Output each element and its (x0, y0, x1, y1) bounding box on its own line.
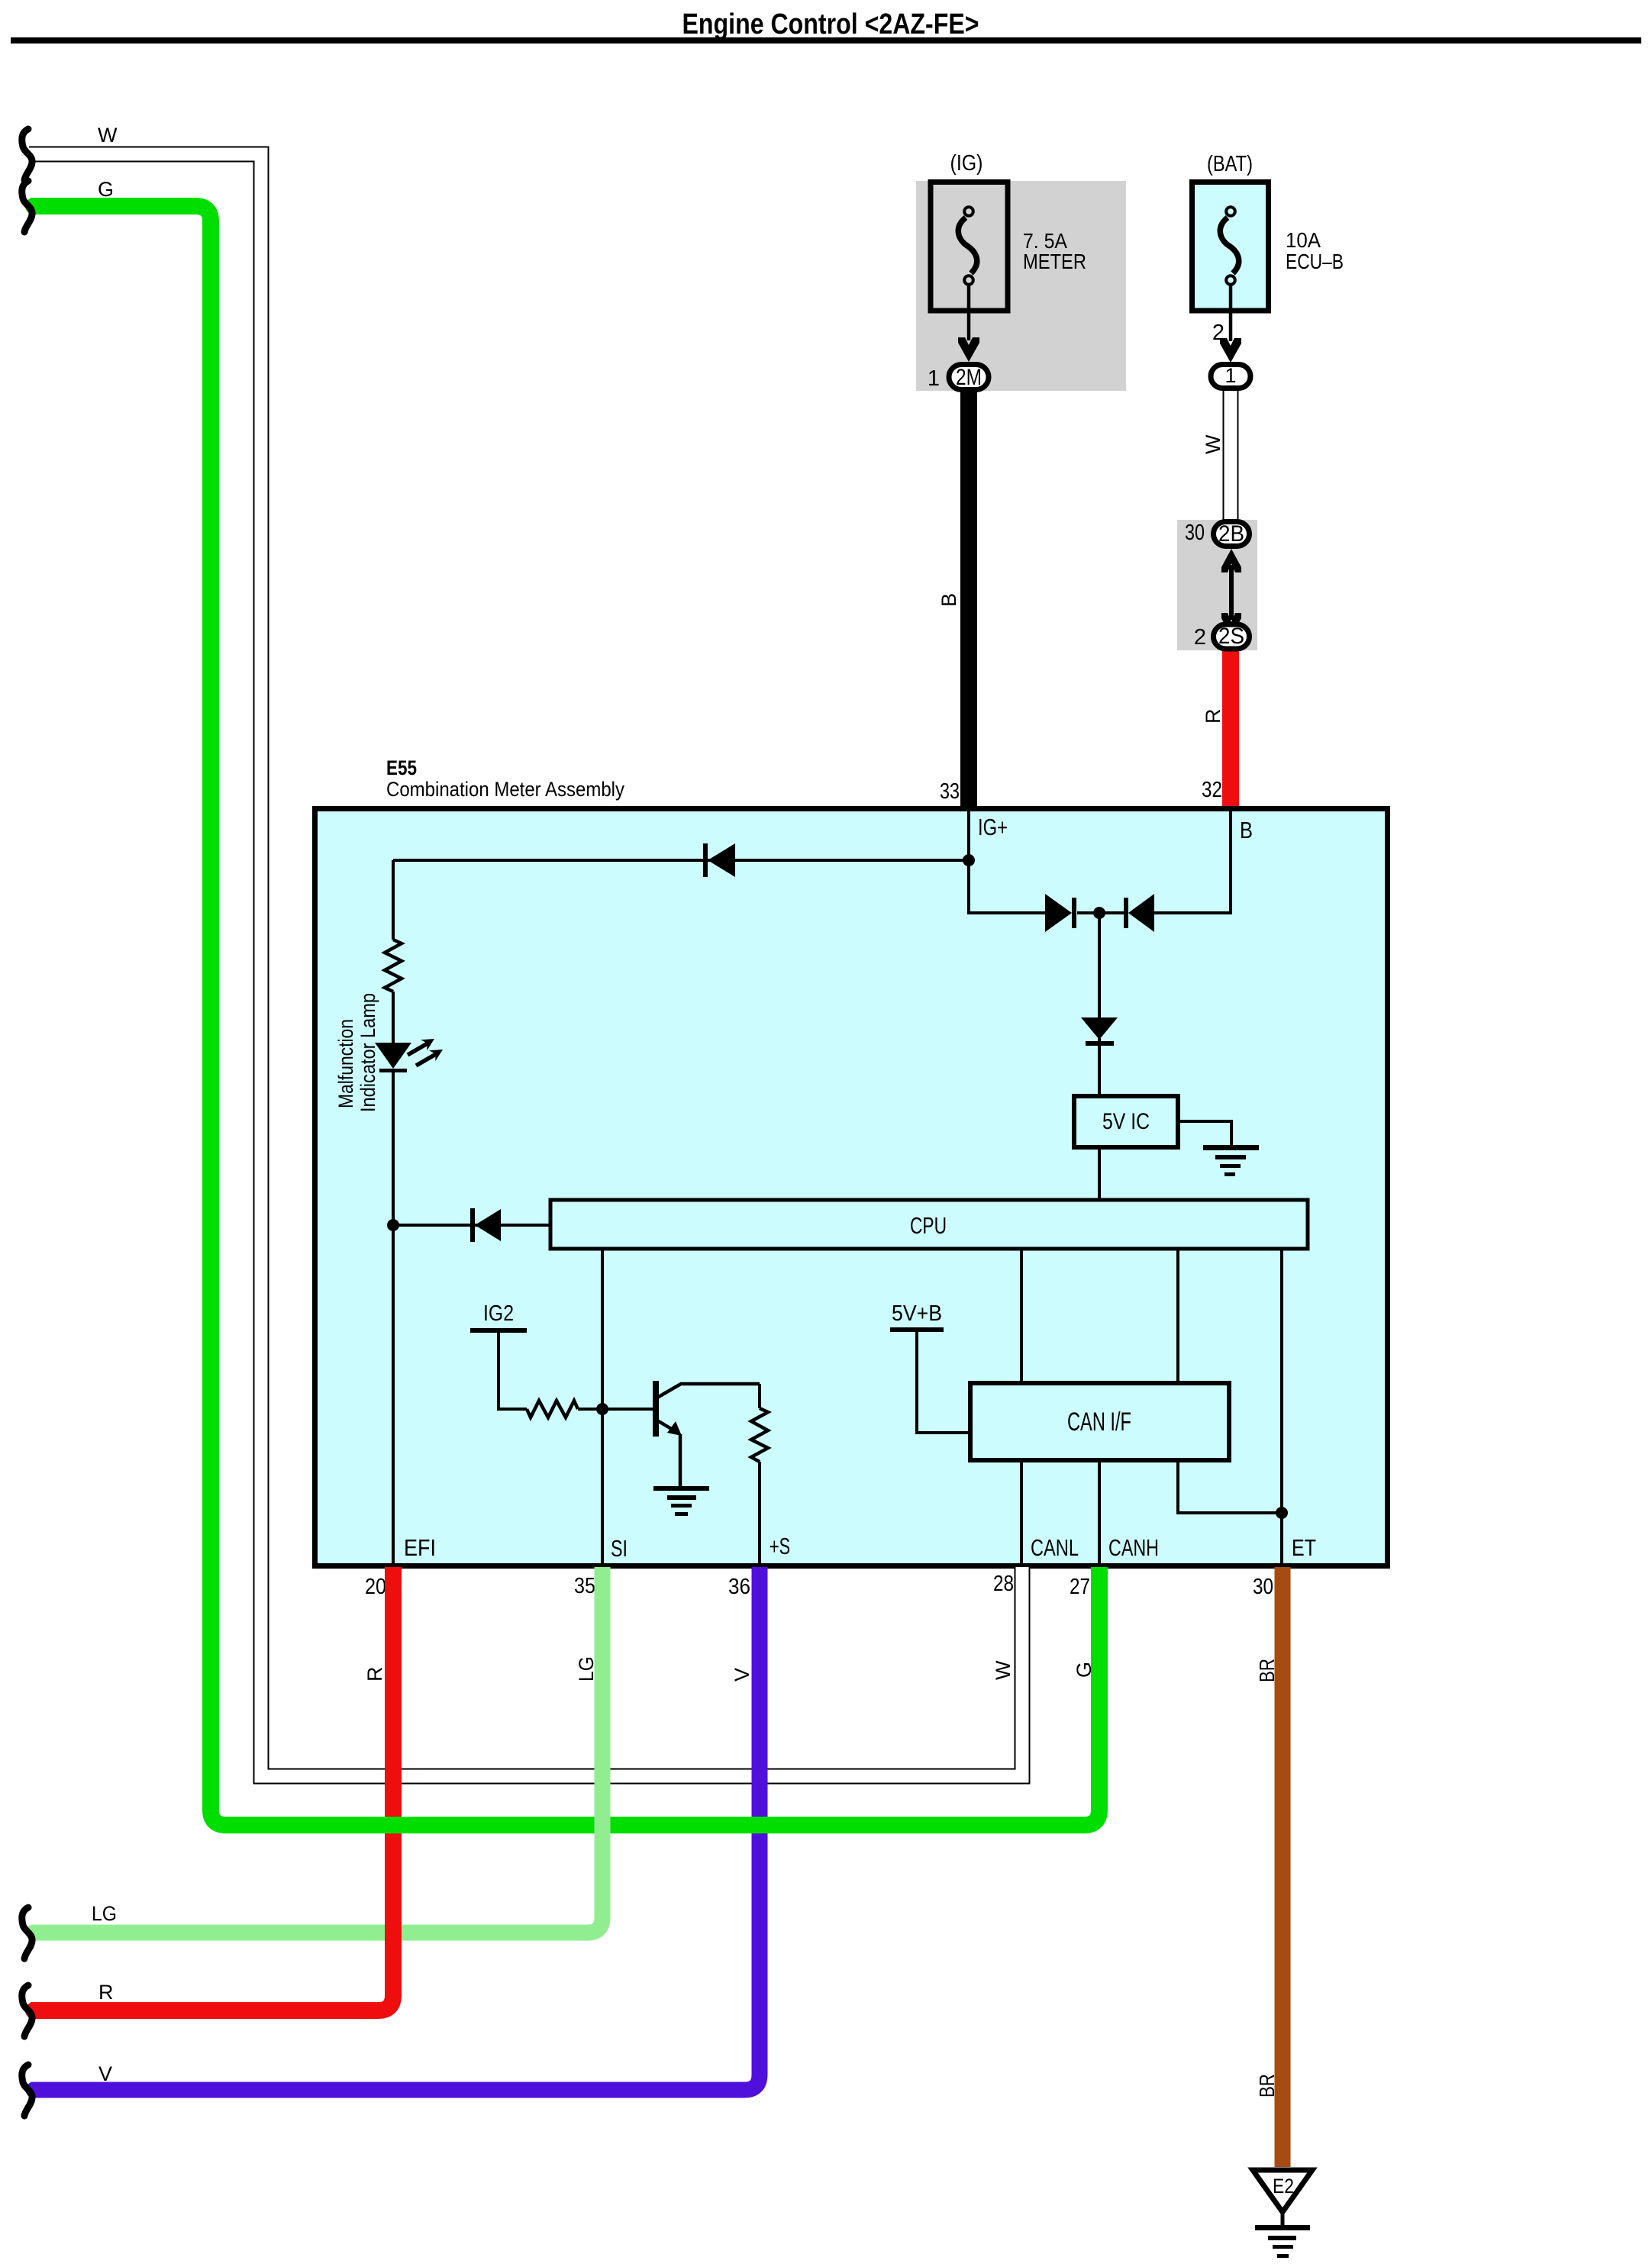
svg-text:2M: 2M (956, 365, 982, 390)
svg-text:EFI: EFI (404, 1534, 436, 1561)
svg-text:R: R (1202, 709, 1224, 724)
wire from fuse IG to connector 2M with arrow (958, 285, 979, 362)
svg-text:CANH: CANH (1108, 1534, 1159, 1561)
svg-text:36: 36 (728, 1575, 750, 1599)
pin 33 label (940, 779, 960, 804)
page break squiggle (W) (22, 129, 32, 180)
resistor R1 (MIL) (385, 940, 402, 992)
wire label V (pin 36) (731, 1668, 753, 1682)
wire V left end cap (26, 2082, 42, 2098)
wire resistor to LED (392, 992, 395, 1043)
wire R left end cap (25, 2002, 42, 2019)
label (BAT) (1207, 152, 1253, 176)
E55 Combination Meter Assembly box (315, 809, 1388, 1566)
terminal label EFI (404, 1534, 436, 1561)
pin 30 label of 2B (1185, 521, 1205, 545)
node IG+ vertical wire (969, 809, 1049, 913)
connector 2B (1214, 521, 1250, 547)
wire CAN I/F to ET junction (1178, 1460, 1282, 1513)
power node 5V+B (890, 1301, 970, 1433)
wire label R (left) (98, 1981, 114, 2004)
wire LG from page break to SI pin 35 (31, 1567, 602, 1933)
resistor R2 (IG2 to base) (527, 1401, 578, 1417)
pin 32 label (1202, 778, 1222, 802)
node B vertical wire (1150, 809, 1253, 913)
wire 5V IC to ground (1178, 1121, 1231, 1146)
pin 30 label (1253, 1575, 1273, 1599)
svg-text:2: 2 (1194, 625, 1206, 650)
svg-text:V: V (731, 1668, 753, 1682)
connector 1 (BAT) (1211, 364, 1250, 389)
title: Engine Control <2AZ-FE> (682, 8, 979, 40)
svg-text:Indicator Lamp: Indicator Lamp (357, 993, 379, 1112)
wire label G (top) (98, 178, 114, 201)
wire MIL branch vertical (EFI line) (392, 860, 395, 940)
wire from fuse BAT to connector 1 with arrow (1220, 285, 1241, 363)
svg-text:W: W (98, 124, 118, 147)
ground (transistor emitter) (653, 1486, 709, 1516)
page break squiggle (V) (22, 2065, 32, 2116)
svg-text:LG: LG (575, 1656, 598, 1682)
ground (5V IC) (1203, 1145, 1259, 1176)
svg-text:(IG): (IG) (950, 151, 983, 176)
terminal label SI (611, 1535, 628, 1562)
wire V from page break to +S pin 36 (31, 1567, 760, 2090)
wire LG left end cap (26, 1925, 42, 1941)
wire 5V IC to CPU (1098, 1147, 1101, 1200)
svg-text:LG: LG (92, 1902, 117, 1925)
pin 1 label of 2M (928, 366, 940, 391)
svg-text:30: 30 (1253, 1575, 1273, 1599)
diode D2 (B side of OR) (1124, 894, 1154, 932)
ground E2 (1253, 2170, 1312, 2258)
connector 2M (949, 365, 989, 391)
wire label R (1202, 709, 1224, 724)
svg-text:1: 1 (1224, 364, 1236, 387)
svg-text:G: G (1073, 1662, 1095, 1678)
wire B (black) from 2M to E55 pin 33 (960, 391, 977, 808)
gray block behind 2B/2S connectors (1177, 520, 1257, 650)
wire R (red) from 2S to E55 pin 32 (1222, 649, 1239, 808)
svg-text:E2: E2 (1273, 2175, 1294, 2198)
LED D6 Malfunction Indicator Lamp (375, 1039, 443, 1072)
svg-text:2: 2 (1212, 321, 1224, 345)
svg-text:+S: +S (770, 1533, 790, 1559)
svg-text:30: 30 (1185, 521, 1205, 545)
CAN I/F U3 (970, 1383, 1229, 1460)
wire G from page break to CANH pin 27 (31, 206, 1099, 1825)
diode D1 (IG+ side of OR) (1045, 894, 1076, 932)
terminal label CANL (1031, 1534, 1079, 1561)
wire label BR (top) (1255, 1659, 1279, 1682)
svg-text:28: 28 (993, 1572, 1014, 1596)
svg-text:33: 33 (940, 779, 960, 804)
diode D4 (470, 1208, 501, 1242)
terminal label +S (770, 1533, 790, 1559)
svg-text:W: W (1202, 434, 1224, 454)
wire resistor to +S pin (758, 1462, 761, 1567)
wire label W (top) (98, 124, 118, 147)
pin 27 label (1070, 1575, 1090, 1599)
CPU U2 (550, 1200, 1308, 1249)
wire label LG (left) (92, 1902, 117, 1925)
svg-text:CPU: CPU (910, 1212, 947, 1239)
svg-text:27: 27 (1070, 1575, 1090, 1599)
svg-text:2S: 2S (1218, 624, 1244, 649)
power node IG2 (470, 1301, 527, 1409)
pin 2 label above connector 1 (1212, 321, 1224, 345)
pin 2 label of 2S (1194, 625, 1206, 650)
resistor R3 (+S pull) (751, 1408, 768, 1462)
wire CPU to ET pin (1280, 1249, 1283, 1567)
svg-text:R: R (98, 1981, 114, 2004)
junction dot ET (1276, 1507, 1288, 1519)
value label 7.5A METER (1023, 229, 1086, 273)
junction dot diode pair (1093, 907, 1105, 919)
svg-text:2B: 2B (1218, 521, 1244, 547)
svg-text:IG2: IG2 (483, 1301, 514, 1326)
svg-text:BR: BR (1255, 2074, 1279, 2098)
svg-text:10A: 10A (1286, 228, 1321, 252)
wire G left end cap (25, 198, 42, 214)
svg-text:CAN I/F: CAN I/F (1067, 1408, 1131, 1437)
svg-text:G: G (98, 178, 114, 201)
wire label R (pin 20) (363, 1667, 386, 1682)
wire from diode pair down to 5V IC (1098, 913, 1101, 1096)
svg-text:CANL: CANL (1031, 1534, 1079, 1561)
svg-text:5V+B: 5V+B (892, 1301, 942, 1326)
svg-text:SI: SI (611, 1535, 628, 1562)
svg-text:(BAT): (BAT) (1207, 152, 1253, 176)
label (IG) (950, 151, 983, 176)
wire collector down to resistor (758, 1384, 761, 1408)
gray block behind IG fuse (916, 181, 1126, 391)
wire CPU to SI pin (601, 1249, 604, 1567)
wire CAN I/F to CANH pin (1098, 1460, 1101, 1567)
svg-text:ECU–B: ECU–B (1286, 250, 1344, 273)
5V IC U1 (1074, 1096, 1178, 1147)
wire BR from ET pin 30 to ground E2 (1275, 1567, 1291, 2167)
wire resistor to base (578, 1408, 653, 1411)
diode D3 (down) (1081, 1017, 1118, 1046)
wire label LG (pin 35) (575, 1656, 598, 1682)
svg-text:32: 32 (1202, 778, 1222, 802)
svg-text:20: 20 (365, 1575, 386, 1599)
svg-text:1: 1 (928, 366, 940, 391)
pin 20 label (365, 1575, 386, 1599)
wire label V (left) (98, 2062, 112, 2085)
wire LED to EFI pin (392, 1072, 395, 1567)
wire R from page break to EFI pin 20 (31, 1567, 393, 2011)
wire CAN I/F to CANL pin (1020, 1460, 1023, 1567)
wire between diode pair (1077, 911, 1124, 914)
label Malfunction Indicator Lamp (334, 993, 379, 1112)
svg-text:ET: ET (1292, 1534, 1316, 1561)
wire label W (bottom, pin 28) (992, 1660, 1015, 1680)
E55 label (386, 756, 624, 801)
wire CPU to CAN I/F left (1020, 1249, 1023, 1383)
svg-text:E55: E55 (386, 756, 417, 779)
wire label W (1202, 434, 1224, 454)
page break squiggle (G) (22, 181, 32, 232)
page break squiggle (R) (22, 1985, 32, 2036)
svg-text:B: B (937, 593, 960, 607)
svg-text:V: V (98, 2062, 112, 2085)
wire label B (937, 593, 960, 607)
terminal label ET (1292, 1534, 1316, 1561)
wire W (white) full path from page break to CANL pin 28 (29, 154, 1022, 1776)
svg-text:BR: BR (1255, 1659, 1279, 1682)
svg-text:W: W (992, 1660, 1015, 1680)
junction dot SI/base (596, 1403, 608, 1415)
value label 10A ECU-B (1286, 228, 1344, 273)
double arrow between 2B and 2S (1221, 549, 1241, 637)
svg-text:Malfunction: Malfunction (334, 1019, 357, 1108)
wire label BR (bottom) (1255, 2074, 1279, 2098)
diode D5 on IG+ left wire (703, 843, 735, 877)
pin 35 label (574, 1574, 595, 1598)
junction dot MIL (387, 1219, 399, 1231)
junction dot IG+ (963, 854, 975, 866)
terminal label CANH (1108, 1534, 1159, 1561)
fuse F2 10A ECU-B (BAT) (1192, 182, 1269, 311)
wire label G (pin 27) (1073, 1662, 1095, 1678)
svg-text:B: B (1240, 817, 1253, 843)
pin 28 label (993, 1572, 1014, 1596)
fuse F1 7.5A METER (IG) (931, 182, 1008, 311)
svg-text:5V IC: 5V IC (1102, 1109, 1150, 1134)
svg-text:R: R (363, 1667, 386, 1682)
wire LG vertical segment redrawn over G (595, 1567, 611, 1901)
svg-text:IG+: IG+ (978, 814, 1008, 840)
wire CPU to MIL junction with diode (393, 1224, 550, 1227)
title rule (11, 37, 1641, 44)
wire W (white) from connector 1 to 2B (1223, 385, 1239, 527)
pin 36 label (728, 1575, 750, 1599)
wire CPU to CAN I/F right (1176, 1249, 1179, 1383)
svg-text:METER: METER (1023, 250, 1086, 273)
svg-text:Combination Meter Assembly: Combination Meter Assembly (386, 778, 624, 801)
page break squiggle (LG) (22, 1907, 32, 1959)
svg-text:Engine Control <2AZ-FE>: Engine Control <2AZ-FE> (682, 8, 979, 40)
svg-text:35: 35 (574, 1574, 595, 1598)
wire from IG+ junction left to MIL branch (393, 859, 969, 862)
transistor Q1 (653, 1381, 760, 1486)
connector 2S (1214, 624, 1250, 649)
